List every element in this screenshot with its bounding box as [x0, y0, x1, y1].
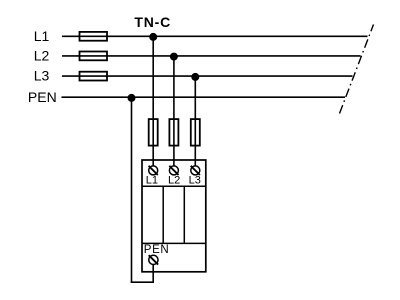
wire L1 horizontal — [62, 35, 368, 37]
wire PEN horizontal — [62, 96, 346, 98]
wire L1 vertical drop — [152, 36, 154, 170]
module divider 1 — [162, 186, 164, 243]
junction node on PEN — [128, 94, 136, 102]
svg-text:L2: L2 — [34, 48, 50, 64]
svg-text:L2: L2 — [168, 175, 180, 187]
svg-text:PEN: PEN — [144, 244, 169, 256]
wire PEN vertical drop — [131, 97, 133, 283]
wire PEN bottom horizontal run — [131, 281, 154, 283]
divider above PEN section — [142, 242, 206, 244]
terminal L3 (screw) — [191, 166, 200, 175]
fuse F4 (vertical, L1 branch) — [149, 119, 158, 146]
fuse F2 (L2 line) — [80, 52, 108, 61]
svg-text:TN-C: TN-C — [134, 14, 171, 30]
svg-text:L3: L3 — [34, 68, 50, 84]
fuse F3 (L3 line) — [80, 72, 108, 81]
fuse F6 (vertical, L3 branch) — [191, 119, 200, 146]
svg-text:L1: L1 — [146, 175, 158, 187]
junction node on L1 — [149, 33, 157, 41]
svg-text:L3: L3 — [189, 175, 201, 187]
svg-text:PEN: PEN — [28, 89, 57, 105]
wire PEN riser to terminal — [152, 260, 154, 283]
terminal PEN (screw) — [149, 255, 158, 264]
terminal L2 (screw) — [169, 166, 178, 175]
break mark: diagonal chain line (lines continue) — [340, 25, 374, 114]
junction node on L2 — [170, 53, 178, 61]
module divider 2 — [183, 186, 185, 243]
divider below terminals — [142, 185, 206, 187]
svg-text:L1: L1 — [34, 28, 50, 44]
fuse F1 (L1 line) — [80, 32, 108, 41]
wire L2 horizontal — [62, 55, 361, 57]
wire L2 vertical drop — [173, 56, 175, 170]
terminal L1 (screw) — [149, 166, 158, 175]
fuse F5 (vertical, L2 branch) — [169, 119, 178, 146]
wire L3 horizontal — [62, 75, 353, 77]
junction node on L3 — [191, 73, 199, 81]
wire L3 vertical drop — [194, 76, 196, 170]
SPD device box U1 — [142, 160, 206, 272]
